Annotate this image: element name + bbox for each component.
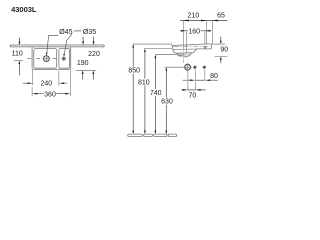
svg-text:630: 630 bbox=[161, 99, 173, 106]
svg-text:65: 65 bbox=[217, 13, 225, 20]
svg-text:360: 360 bbox=[44, 91, 56, 98]
svg-text:190: 190 bbox=[77, 60, 89, 67]
svg-text:240: 240 bbox=[40, 81, 52, 88]
svg-text:210: 210 bbox=[188, 13, 200, 20]
svg-text:43003L: 43003L bbox=[11, 5, 37, 14]
svg-text:110: 110 bbox=[12, 50, 23, 57]
svg-text:Ø45: Ø45 bbox=[59, 27, 73, 36]
svg-text:220: 220 bbox=[88, 51, 100, 58]
svg-text:740: 740 bbox=[150, 90, 162, 97]
svg-text:70: 70 bbox=[189, 93, 197, 100]
svg-text:810: 810 bbox=[138, 80, 150, 87]
svg-text:160: 160 bbox=[188, 28, 200, 35]
svg-text:90: 90 bbox=[220, 46, 228, 53]
svg-text:850: 850 bbox=[128, 68, 140, 75]
svg-text:Ø35: Ø35 bbox=[83, 27, 97, 36]
svg-text:80: 80 bbox=[210, 73, 218, 80]
